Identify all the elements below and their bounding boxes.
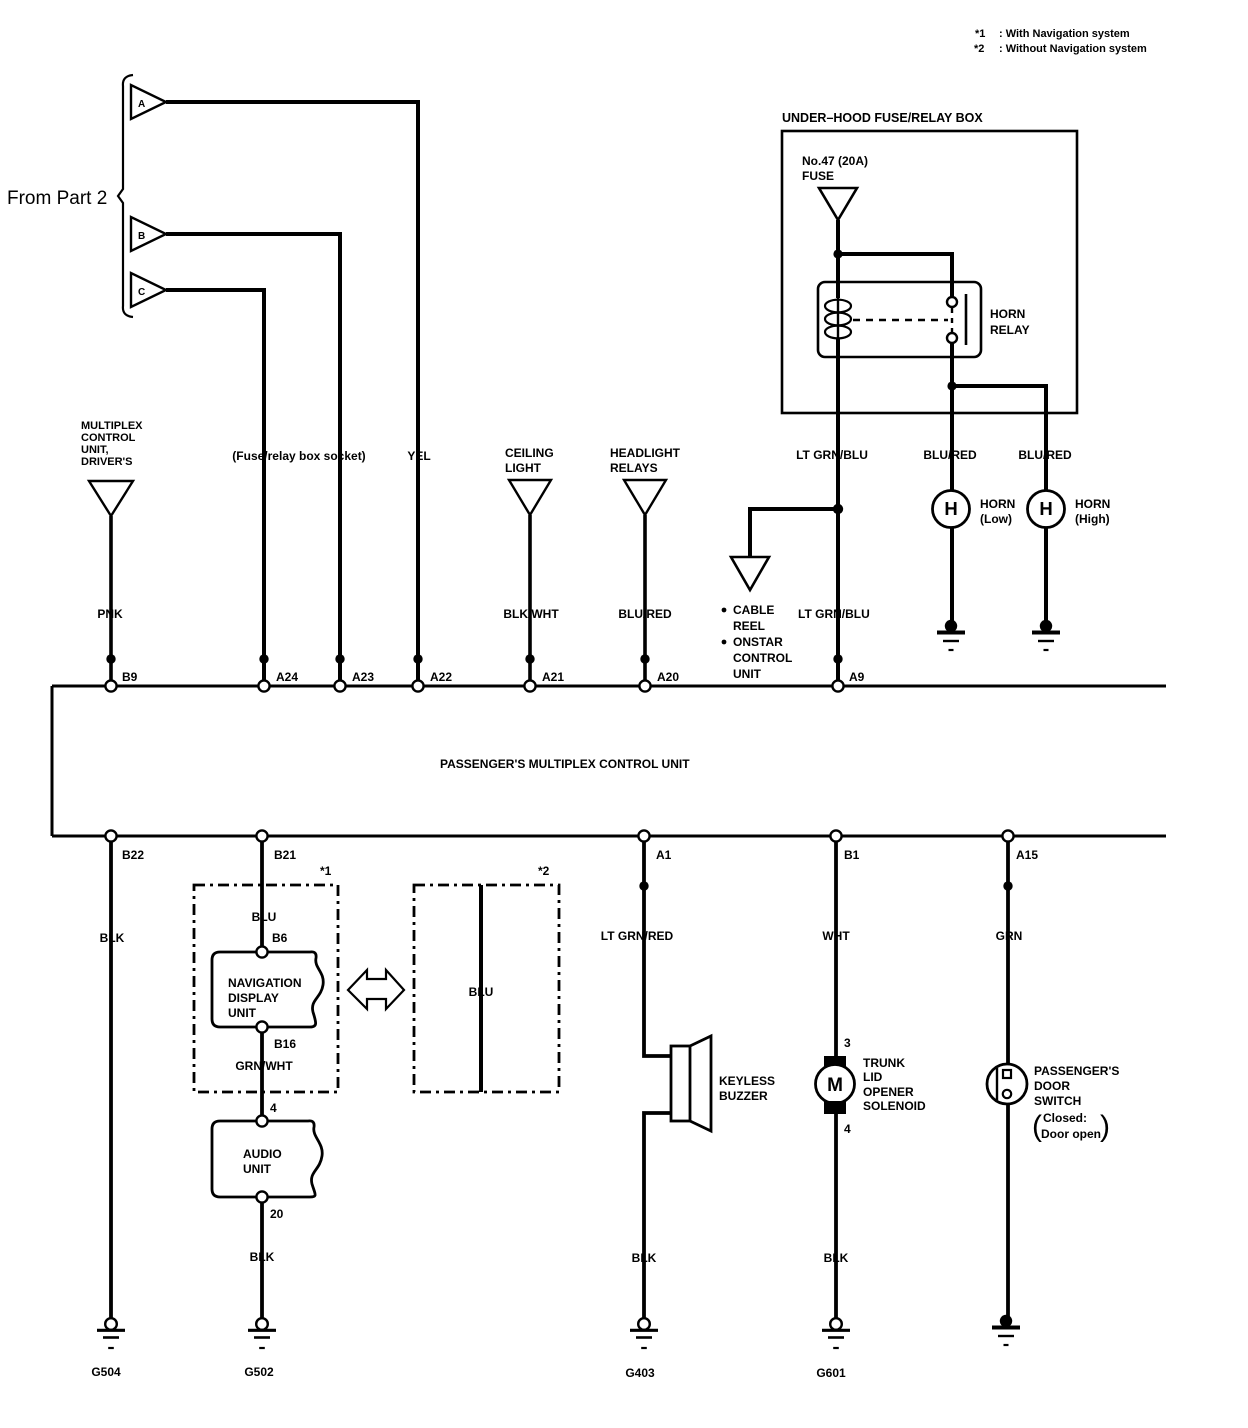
wire from A to A22 bbox=[166, 102, 418, 681]
svg-text:(High): (High) bbox=[1075, 512, 1110, 526]
wire relay contact down to horn low bbox=[950, 343, 954, 626]
svg-text:Closed:: Closed: bbox=[1043, 1111, 1087, 1125]
pin arrow A15 bbox=[1003, 881, 1012, 890]
svg-text:HEADLIGHT: HEADLIGHT bbox=[610, 446, 681, 460]
wire solenoid BLK to G601 bbox=[834, 1114, 838, 1318]
svg-text:REEL: REEL bbox=[733, 619, 765, 633]
svg-text:A24: A24 bbox=[276, 670, 298, 684]
svg-text:BLK: BLK bbox=[632, 1251, 657, 1265]
equivalence double arrow bbox=[348, 970, 404, 1009]
wire branch to cable reel connector bbox=[750, 509, 838, 557]
multiplex control unit driver's triangle bbox=[81, 420, 143, 516]
svg-text:From Part 2: From Part 2 bbox=[7, 188, 107, 209]
svg-text:G502: G502 bbox=[244, 1365, 274, 1379]
terminal A22 bbox=[412, 670, 452, 692]
svg-text:(Fuse/relay box socket): (Fuse/relay box socket) bbox=[232, 449, 365, 463]
svg-text:OPENER: OPENER bbox=[863, 1085, 914, 1099]
svg-text:A1: A1 bbox=[656, 848, 672, 862]
wire 20 BLK to G502 bbox=[260, 1202, 264, 1318]
svg-text:B16: B16 bbox=[274, 1037, 296, 1051]
svg-text:CABLE: CABLE bbox=[733, 603, 774, 617]
wire A1 LT GRN/RED to keyless buzzer bbox=[644, 842, 671, 1056]
pin arrow A21 bbox=[525, 654, 534, 663]
svg-text:AUDIO: AUDIO bbox=[243, 1147, 282, 1161]
svg-text:HORN: HORN bbox=[1075, 497, 1110, 511]
terminal A20 bbox=[639, 670, 679, 692]
svg-text:SWITCH: SWITCH bbox=[1034, 1094, 1081, 1108]
relay contact bar bbox=[965, 294, 968, 345]
svg-text:A23: A23 bbox=[352, 670, 374, 684]
terminal A15 bbox=[1002, 830, 1038, 862]
legend note *2 without navigation system bbox=[974, 43, 1147, 55]
pin arrow A23 bbox=[335, 654, 344, 663]
svg-text:A22: A22 bbox=[430, 670, 452, 684]
svg-text:BLK/WHT: BLK/WHT bbox=[503, 607, 559, 621]
svg-text:No.47 (20A): No.47 (20A) bbox=[802, 154, 868, 168]
wire fuse to coil bbox=[836, 220, 840, 298]
svg-text:G504: G504 bbox=[91, 1365, 121, 1379]
svg-text:BLU/RED: BLU/RED bbox=[1018, 448, 1072, 462]
terminal B21 bbox=[256, 830, 296, 862]
terminal A24 bbox=[258, 670, 298, 692]
pin arrow A24 bbox=[259, 654, 268, 663]
svg-text:PNK: PNK bbox=[97, 607, 123, 621]
svg-text:BLK: BLK bbox=[100, 931, 125, 945]
svg-text:UNIT: UNIT bbox=[733, 667, 762, 681]
svg-text:H: H bbox=[1039, 498, 1052, 519]
svg-text:B1: B1 bbox=[844, 848, 860, 862]
wire BLU inside *2 box bbox=[479, 885, 483, 1092]
svg-text:*2: *2 bbox=[974, 43, 984, 55]
pin arrow A22 bbox=[413, 654, 422, 663]
svg-text:A: A bbox=[138, 99, 145, 110]
pin arrow A9 bbox=[833, 654, 842, 663]
junction dot below relay bbox=[947, 381, 956, 390]
svg-text:DOOR: DOOR bbox=[1034, 1079, 1070, 1093]
svg-text:LT GRN/BLU: LT GRN/BLU bbox=[796, 448, 868, 462]
wire branch junction to relay contact bbox=[838, 254, 952, 298]
svg-text:YEL: YEL bbox=[407, 449, 430, 463]
svg-text:(Low): (Low) bbox=[980, 512, 1012, 526]
wire BLK/WHT to A21 bbox=[528, 515, 532, 681]
svg-text:RELAYS: RELAYS bbox=[610, 461, 658, 475]
svg-text:RELAY: RELAY bbox=[990, 323, 1030, 337]
svg-text:WHT: WHT bbox=[822, 929, 850, 943]
svg-text:B6: B6 bbox=[272, 931, 288, 945]
headlight relays triangle bbox=[610, 446, 681, 515]
terminal B16 circle bbox=[256, 1021, 267, 1032]
wire branch to horn high bbox=[952, 386, 1046, 626]
connector triangle B bbox=[131, 217, 166, 251]
wire BLU/RED to A20 bbox=[643, 515, 647, 681]
svg-text:B: B bbox=[138, 231, 145, 242]
wire PNK to B9 bbox=[109, 516, 113, 681]
svg-text:: Without Navigation system: : Without Navigation system bbox=[999, 43, 1147, 55]
bracket for From Part 2 connectors bbox=[118, 75, 133, 317]
wire B22 BLK to G504 bbox=[109, 842, 113, 1318]
svg-text:BUZZER: BUZZER bbox=[719, 1089, 768, 1103]
ground G504 bbox=[91, 1318, 125, 1379]
svg-text:BLK: BLK bbox=[250, 1250, 275, 1264]
svg-text:B21: B21 bbox=[274, 848, 296, 862]
label cable reel / onstar control unit bbox=[722, 603, 793, 681]
connector triangle A bbox=[131, 85, 166, 119]
pin arrow A1 bbox=[639, 881, 648, 890]
svg-text:G403: G403 bbox=[625, 1366, 655, 1380]
navigation display unit box bbox=[212, 952, 323, 1027]
svg-text:M: M bbox=[827, 1075, 843, 1096]
terminal A9 bbox=[832, 670, 864, 692]
terminal A23 bbox=[334, 670, 374, 692]
svg-text:NAVIGATION: NAVIGATION bbox=[228, 976, 302, 990]
svg-text:BLK: BLK bbox=[824, 1251, 849, 1265]
label horn relay bbox=[990, 307, 1030, 337]
svg-text:UNDER–HOOD FUSE/RELAY BOX: UNDER–HOOD FUSE/RELAY BOX bbox=[782, 111, 983, 125]
junction dot below fuse bbox=[833, 249, 842, 258]
ground A15 filled bbox=[992, 1315, 1020, 1345]
ground for horn high bbox=[1032, 620, 1060, 650]
svg-text:SOLENOID: SOLENOID bbox=[863, 1099, 926, 1113]
horn (low) bbox=[933, 491, 1016, 528]
legend note *1 with navigation system bbox=[975, 28, 1130, 40]
svg-text:LT GRN/RED: LT GRN/RED bbox=[601, 929, 674, 943]
wire B16 GRN/WHT to audio unit bbox=[260, 1032, 264, 1117]
svg-text:*1: *1 bbox=[320, 864, 332, 878]
ceiling light triangle bbox=[505, 446, 554, 515]
relay movable arm dashed bbox=[951, 308, 953, 332]
svg-text:LIGHT: LIGHT bbox=[505, 461, 542, 475]
svg-text:ONSTAR: ONSTAR bbox=[733, 635, 783, 649]
terminal 20 circle bbox=[256, 1191, 267, 1202]
svg-text:TRUNK: TRUNK bbox=[863, 1056, 905, 1070]
svg-text:MULTIPLEX: MULTIPLEX bbox=[81, 420, 143, 432]
terminal A1 bbox=[638, 830, 671, 862]
svg-text:PASSENGER'S: PASSENGER'S bbox=[1034, 1064, 1119, 1078]
svg-text:BLU: BLU bbox=[469, 985, 494, 999]
ground G403 bbox=[625, 1318, 658, 1380]
svg-text:LT GRN/BLU: LT GRN/BLU bbox=[798, 607, 870, 621]
wire relay coil to A9 terminal (LT GRN/BLU) bbox=[836, 357, 840, 681]
relay contact bottom bbox=[947, 333, 957, 343]
svg-text:A20: A20 bbox=[657, 670, 679, 684]
terminal A21 bbox=[524, 670, 564, 692]
passenger's multiplex control unit bus bbox=[52, 686, 1166, 836]
connector triangle C bbox=[131, 273, 166, 307]
terminal B6 circle bbox=[256, 946, 267, 957]
svg-text:UNIT: UNIT bbox=[228, 1006, 257, 1020]
wire B1 WHT to solenoid bbox=[834, 842, 838, 1056]
relay contact top bbox=[947, 297, 957, 307]
audio unit box bbox=[212, 1121, 322, 1197]
keyless buzzer bbox=[671, 1036, 775, 1131]
wire B21 BLU into navigation unit bbox=[260, 842, 264, 947]
svg-text:20: 20 bbox=[270, 1207, 284, 1221]
svg-text:4: 4 bbox=[844, 1122, 851, 1136]
trunk lid opener solenoid M bbox=[816, 1056, 927, 1114]
svg-text:*2: *2 bbox=[538, 864, 550, 878]
terminal B1 bbox=[830, 830, 859, 862]
svg-text:A15: A15 bbox=[1016, 848, 1038, 862]
terminal 4 circle bbox=[256, 1115, 267, 1126]
svg-text:B22: B22 bbox=[122, 848, 144, 862]
terminal B9 bbox=[105, 670, 137, 692]
pin arrow A20 bbox=[640, 654, 649, 663]
svg-text:FUSE: FUSE bbox=[802, 169, 834, 183]
svg-text:C: C bbox=[138, 287, 145, 298]
svg-text:CONTROL: CONTROL bbox=[733, 651, 792, 665]
pin arrow B9 bbox=[106, 654, 115, 663]
svg-text:): ) bbox=[1100, 1110, 1110, 1143]
svg-text:CONTROL: CONTROL bbox=[81, 432, 136, 444]
svg-text:BLU: BLU bbox=[252, 910, 277, 924]
wire from B to A23 bbox=[166, 234, 340, 681]
wire buzzer BLK to G403 bbox=[644, 1113, 671, 1318]
svg-text:PASSENGER'S MULTIPLEX CONTROL: PASSENGER'S MULTIPLEX CONTROL UNIT bbox=[440, 757, 690, 771]
svg-text:DRIVER'S: DRIVER'S bbox=[81, 456, 133, 468]
svg-text:H: H bbox=[944, 498, 957, 519]
junction dot cable reel branch bbox=[833, 504, 843, 514]
svg-text:B9: B9 bbox=[122, 670, 138, 684]
svg-text:CEILING: CEILING bbox=[505, 446, 554, 460]
fuse No.47 (20A) bbox=[802, 154, 868, 220]
svg-text:GRN: GRN bbox=[996, 929, 1023, 943]
horn relay box U-relay bbox=[818, 282, 981, 357]
dashed option box *2 bbox=[414, 885, 559, 1092]
ground G601 bbox=[816, 1318, 850, 1380]
svg-text:3: 3 bbox=[844, 1036, 851, 1050]
terminal B22 bbox=[105, 830, 144, 862]
svg-text:HORN: HORN bbox=[980, 497, 1015, 511]
svg-text:A21: A21 bbox=[542, 670, 564, 684]
wire from C to A24 bbox=[166, 290, 264, 681]
svg-text:GRN/WHT: GRN/WHT bbox=[235, 1059, 293, 1073]
relay coil bbox=[825, 298, 851, 357]
svg-text:Door open: Door open bbox=[1041, 1127, 1101, 1141]
svg-text:UNIT,: UNIT, bbox=[81, 444, 109, 456]
svg-text:*1: *1 bbox=[975, 28, 985, 40]
svg-text:: With Navigation system: : With Navigation system bbox=[999, 28, 1130, 40]
ground for horn low bbox=[937, 620, 965, 650]
horn (high) bbox=[1028, 491, 1111, 528]
svg-text:DISPLAY: DISPLAY bbox=[228, 991, 279, 1005]
svg-text:A9: A9 bbox=[849, 670, 865, 684]
svg-text:4: 4 bbox=[270, 1101, 277, 1115]
relay actuation dashed link bbox=[853, 319, 948, 321]
svg-text:LID: LID bbox=[863, 1070, 883, 1084]
svg-text:G601: G601 bbox=[816, 1366, 846, 1380]
svg-text:BLU/RED: BLU/RED bbox=[923, 448, 977, 462]
ground G502 bbox=[244, 1318, 276, 1379]
svg-text:BLU/RED: BLU/RED bbox=[618, 607, 672, 621]
svg-text:KEYLESS: KEYLESS bbox=[719, 1074, 775, 1088]
wire A15 GRN to door switch bbox=[1006, 842, 1010, 1318]
dashed option box *1 bbox=[194, 885, 338, 1092]
svg-text:HORN: HORN bbox=[990, 307, 1025, 321]
connector triangle to cable reel / onstar bbox=[731, 557, 769, 590]
passenger's door switch bbox=[987, 1064, 1119, 1143]
svg-text:UNIT: UNIT bbox=[243, 1162, 272, 1176]
under-hood fuse/relay box bbox=[782, 111, 1077, 413]
